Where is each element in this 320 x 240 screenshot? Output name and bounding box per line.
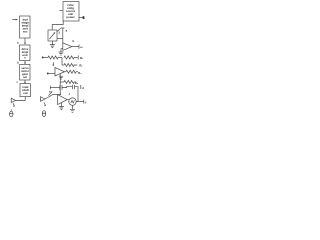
svg-text:R₃: R₃ <box>78 71 82 75</box>
wire box E to pot box <box>52 21 63 30</box>
resistor R5 row <box>60 81 64 83</box>
wiper exit diagonal <box>57 28 61 31</box>
svg-text:c: c <box>69 93 71 96</box>
wiper adjust arrow P2 <box>49 91 53 95</box>
terminal tick <box>83 100 85 104</box>
wire arrow C to D <box>24 80 26 83</box>
U3 ground <box>60 103 62 107</box>
pot box R0 <box>48 30 57 41</box>
label theta <box>42 111 45 117</box>
svg-text:b: b <box>17 60 19 64</box>
svg-text:power: power <box>66 15 75 19</box>
block box D <box>20 84 30 97</box>
wire arrow A to B <box>24 38 26 44</box>
wire U3 to motor <box>67 99 69 101</box>
label theta-dot <box>10 109 13 116</box>
svg-text:2: 2 <box>58 30 60 34</box>
wire input arrow into box A <box>12 19 17 21</box>
block box E (top right) <box>63 2 79 21</box>
U1 plus input ground <box>61 49 63 52</box>
svg-text:e₁: e₁ <box>80 46 84 49</box>
op-amp U2 <box>55 68 65 77</box>
svg-text:a: a <box>66 29 68 32</box>
bus junction down <box>61 58 63 66</box>
resistor R2 row <box>64 56 78 59</box>
input tick k <box>59 10 62 12</box>
block box A <box>20 16 30 38</box>
output tick <box>78 45 80 49</box>
potentiometer P2 <box>41 97 46 102</box>
svg-text:R₁: R₁ <box>80 56 84 60</box>
svg-text:set: set <box>23 75 27 79</box>
svg-text:b: b <box>73 39 75 43</box>
block box C <box>20 65 30 81</box>
input tick left of capacitor wire <box>49 86 51 90</box>
svg-text:sec: sec <box>23 31 28 34</box>
ground <box>50 45 55 48</box>
op-amp U1 <box>63 43 72 51</box>
motor output wire <box>76 101 84 103</box>
capacitor C1 <box>60 85 62 89</box>
svg-text:f: f <box>85 100 86 104</box>
svg-text:out: out <box>23 91 27 95</box>
junction arrow c <box>52 62 54 65</box>
capacitor C2 <box>72 85 74 89</box>
wire box D to pot P1 <box>16 97 26 101</box>
wire arrow B to C <box>24 61 26 64</box>
wire P2 to summing amp U3 <box>45 95 61 100</box>
U1 output wire <box>72 46 79 48</box>
resistor R3 row <box>62 64 64 66</box>
svg-text:o: o <box>24 57 26 60</box>
motor M <box>69 98 76 105</box>
motor ground <box>72 105 74 109</box>
ground under U2 <box>59 76 63 79</box>
wiper wire to node <box>57 38 63 40</box>
resistor R1 row <box>42 56 44 58</box>
U2 output resistor R4 <box>65 71 67 73</box>
wire pot bottom <box>51 41 53 45</box>
svg-text:R₄: R₄ <box>75 81 79 85</box>
terminal <box>83 16 85 19</box>
potentiometer P1 (tach) <box>11 98 15 102</box>
svg-text:c: c <box>17 81 19 84</box>
block box B <box>20 45 30 61</box>
op-amp U3 <box>58 95 68 105</box>
junction dots <box>60 87 61 88</box>
tick label d <box>80 85 82 89</box>
svg-text:a: a <box>17 42 19 45</box>
svg-text:d: d <box>82 86 84 90</box>
bus U2 down to summing node <box>59 74 61 95</box>
node a input wire <box>61 28 64 44</box>
svg-text:R₂: R₂ <box>79 64 83 68</box>
wire box E output to terminal <box>79 17 83 19</box>
feedback capacitor wire <box>50 87 60 89</box>
